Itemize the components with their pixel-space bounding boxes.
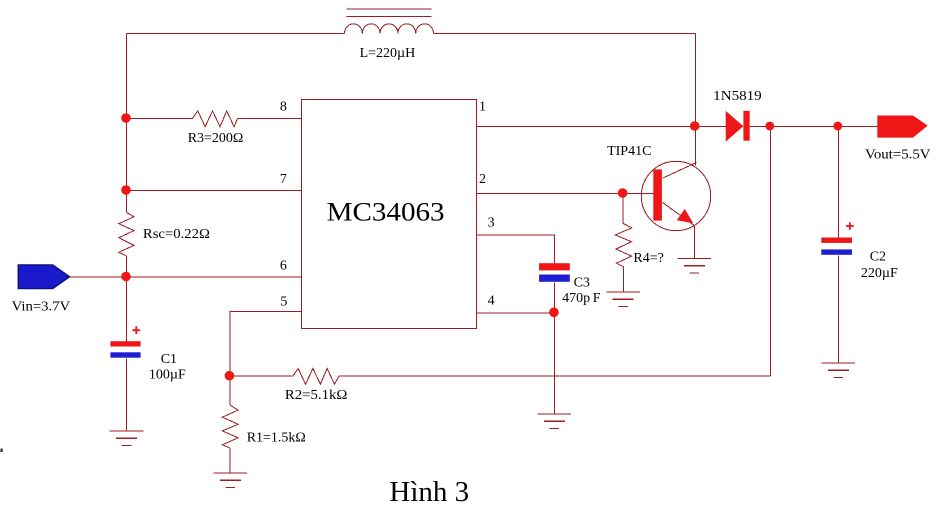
svg-text:7: 7 — [280, 172, 287, 187]
node dot pin1/collector — [690, 121, 700, 131]
node dot pin7/left rail — [121, 185, 131, 195]
wire emitter to ground — [693, 225, 695, 259]
transistor Q1 collector diagonal — [662, 163, 696, 179]
Vin input arrow — [18, 265, 69, 289]
wire C2 to ground — [837, 255, 839, 363]
inductor L core lines — [347, 9, 432, 16]
svg-text:R4=?: R4=? — [633, 251, 663, 266]
wire R4 top stub — [622, 194, 624, 224]
resistor R3 — [192, 111, 237, 127]
wire pin 5 — [230, 312, 302, 377]
wire C3 bottom to node — [553, 282, 555, 313]
svg-text:8: 8 — [280, 100, 287, 115]
svg-text:1: 1 — [479, 100, 486, 115]
node dot pin4/C3 — [549, 308, 559, 318]
svg-text:220µF: 220µF — [861, 266, 898, 281]
resistor R1 — [222, 405, 238, 448]
wire left vertical upper — [126, 34, 128, 213]
svg-text:Vout=5.5V: Vout=5.5V — [865, 148, 931, 163]
svg-text:3: 3 — [488, 216, 495, 231]
capacitor C1 blue plate — [110, 352, 140, 357]
capacitor C2 red plate — [821, 238, 852, 243]
wire top rail left — [127, 33, 345, 35]
capacitor C3 red plate — [539, 263, 570, 270]
svg-text:470pF: 470pF — [562, 291, 601, 306]
resistor Rsc — [119, 213, 134, 257]
node dot pin8/left rail — [121, 113, 131, 123]
svg-text:R2=5.1kΩ: R2=5.1kΩ — [285, 388, 348, 403]
wire pin 8 right — [238, 118, 302, 120]
wire pin 8 left — [127, 118, 193, 120]
svg-text:1N5819: 1N5819 — [713, 89, 762, 104]
wire pin 4 — [477, 312, 555, 314]
ground R4 — [606, 292, 640, 307]
svg-text:C3: C3 — [574, 276, 590, 291]
ground R1 — [214, 473, 248, 488]
wire top rail down to pin1 node — [695, 34, 697, 127]
svg-text:L=220µH: L=220µH — [360, 46, 416, 61]
svg-text:Rsc=0.22Ω: Rsc=0.22Ω — [143, 227, 210, 242]
wire R4 to ground — [622, 267, 624, 292]
svg-text:5: 5 — [280, 294, 287, 309]
wire pin 1 to diode — [477, 126, 727, 128]
svg-text:100µF: 100µF — [149, 368, 186, 383]
resistor R2 — [293, 369, 339, 385]
wire diode to output arrow — [750, 126, 878, 128]
svg-text:TIP41C: TIP41C — [607, 144, 651, 159]
svg-text:2: 2 — [479, 172, 486, 187]
IC U1 MC34063 box — [302, 100, 477, 329]
capacitor C2 blue plate — [821, 249, 852, 254]
svg-text:R1=1.5kΩ: R1=1.5kΩ — [247, 431, 306, 446]
wire R2 left stub — [230, 375, 293, 377]
node dot pin6/left rail — [121, 272, 131, 282]
wire collector vertical — [695, 127, 697, 166]
inductor L coil — [345, 24, 434, 34]
svg-text:4: 4 — [488, 294, 495, 309]
ground emitter — [678, 259, 712, 274]
wire feedback vertical — [769, 127, 771, 377]
wire node to C3 ground — [553, 313, 555, 414]
node dot diode cathode — [765, 122, 774, 131]
wire output node to C2 — [837, 127, 839, 239]
wire pin 2 — [477, 193, 655, 195]
svg-text:C1: C1 — [161, 352, 177, 367]
wire pin 6 — [70, 276, 302, 278]
svg-text:C2: C2 — [870, 250, 886, 265]
diode D1 triangle — [726, 111, 744, 142]
capacitor C2 plus sign — [846, 222, 854, 230]
svg-text:MC34063: MC34063 — [327, 197, 445, 226]
ground C1 — [110, 431, 144, 446]
transistor Q1 base bar — [653, 169, 662, 220]
transistor Q1 emitter diagonal — [662, 202, 694, 225]
svg-text:6: 6 — [280, 259, 287, 274]
ground C2 — [822, 363, 856, 378]
Vout output arrow — [877, 116, 927, 138]
svg-text:Vin=3.7V: Vin=3.7V — [12, 300, 70, 315]
wire pin 3 — [477, 235, 555, 264]
capacitor C1 red plate — [110, 341, 140, 346]
node dot base R4 — [618, 188, 628, 198]
capacitor C3 blue plate — [539, 275, 570, 282]
wire feedback horizontal — [339, 375, 770, 377]
svg-text:R3=200Ω: R3=200Ω — [188, 131, 244, 146]
wire pin 7 — [127, 190, 302, 192]
stray mark bottom left — [0, 449, 2, 452]
wire top rail right — [434, 33, 696, 35]
wire left vertical lower — [126, 256, 128, 342]
transistor Q1 emitter arrowhead — [677, 209, 693, 223]
resistor R4 — [615, 224, 631, 267]
wire R1 to ground — [229, 448, 231, 473]
transistor Q1 circle — [641, 161, 710, 230]
wire C1 to ground — [126, 358, 128, 431]
capacitor C1 plus sign — [132, 326, 140, 334]
svg-text:Hình 3: Hình 3 — [389, 476, 469, 508]
node dot output/C2 — [833, 122, 842, 131]
node dot feedback/R1 — [225, 371, 235, 381]
wire R1 top stub — [229, 376, 231, 405]
diode D1 cathode bar — [743, 111, 749, 141]
ground C3/pin4 — [538, 414, 572, 429]
